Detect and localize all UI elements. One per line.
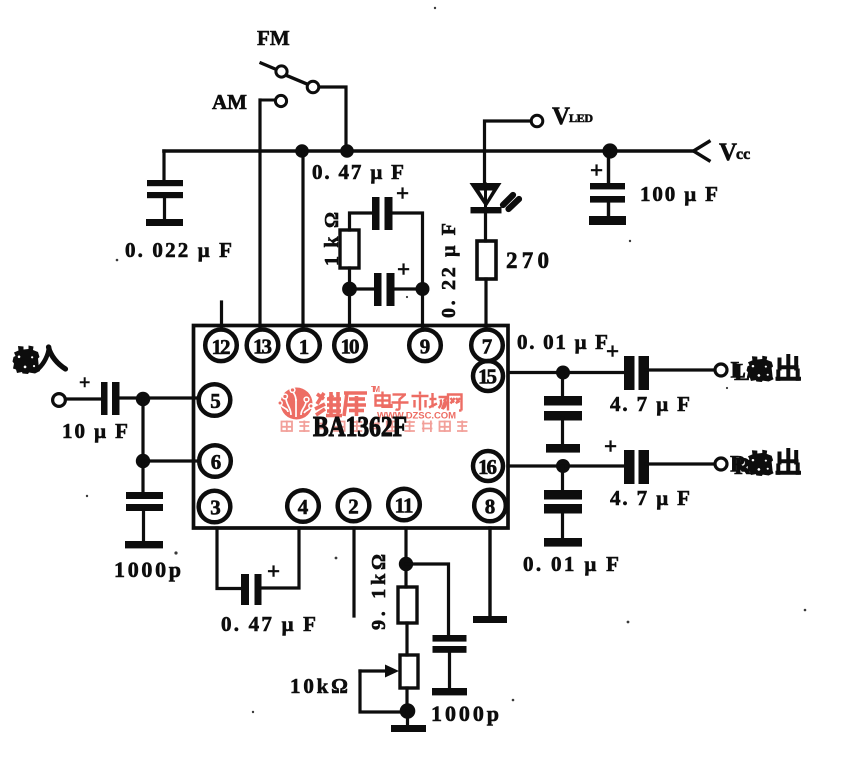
potentiometer RP 10k bbox=[400, 655, 418, 688]
svg-text:1: 1 bbox=[299, 335, 310, 359]
capacitor C 0.22uF upper bbox=[372, 197, 380, 230]
svg-text:0. 47 μ F: 0. 47 μ F bbox=[312, 160, 404, 184]
switch AM contact bbox=[275, 95, 286, 106]
terminal Vcc arrow bbox=[694, 142, 710, 161]
svg-text:100 μ F: 100 μ F bbox=[640, 182, 718, 206]
svg-text:9: 9 bbox=[420, 335, 431, 359]
svg-text:0. 47 μ F: 0. 47 μ F bbox=[221, 612, 316, 636]
svg-text:+: + bbox=[590, 158, 603, 183]
capacitor C 0.22uF lower bbox=[350, 287, 375, 290]
terminal V-LED bbox=[531, 115, 543, 127]
resistor R 1k bbox=[340, 230, 359, 268]
label R output bbox=[734, 454, 752, 480]
svg-text:+: + bbox=[267, 559, 280, 584]
label 0.47uF top bbox=[312, 160, 404, 184]
wire pin4 down bbox=[262, 528, 300, 588]
pin 7 bbox=[471, 330, 503, 362]
wire node to C4.7 bbox=[563, 371, 624, 374]
node pot bottom bbox=[400, 703, 416, 719]
pin 4 bbox=[287, 490, 319, 522]
svg-text:0. 022 μ F: 0. 022 μ F bbox=[125, 238, 232, 262]
svg-text:12: 12 bbox=[212, 335, 231, 359]
svg-text:16: 16 bbox=[478, 455, 497, 479]
node input branch bbox=[136, 392, 150, 406]
pin 9 bbox=[409, 330, 441, 362]
svg-text:11: 11 bbox=[395, 494, 414, 518]
svg-text:R: R bbox=[730, 452, 747, 477]
pot wiper arrow bbox=[360, 669, 390, 672]
svg-text:+: + bbox=[606, 339, 619, 364]
wire node to pin10 bbox=[348, 289, 351, 330]
wire LED to R270 bbox=[484, 212, 487, 241]
svg-text:7: 7 bbox=[482, 335, 493, 359]
wire pin8 ground bbox=[488, 528, 491, 617]
watermark 维库 logo group bbox=[278, 385, 468, 432]
capacitor C 0.47uF bottom bbox=[241, 574, 249, 605]
svg-text:+: + bbox=[604, 434, 617, 459]
label 0.01uF top bbox=[517, 330, 608, 354]
wire pin11 down bbox=[404, 528, 407, 587]
capacitor C 1000p bottom bbox=[433, 635, 467, 642]
wire 1k bottom to node bbox=[348, 268, 351, 289]
watermark text 市 bbox=[412, 392, 429, 411]
svg-text:LED: LED bbox=[569, 111, 593, 125]
svg-text:FM: FM bbox=[257, 26, 290, 50]
capacitor C 4.7uF R bbox=[624, 450, 635, 484]
watermark slogan row bbox=[282, 421, 468, 433]
ground below pot bbox=[406, 711, 409, 726]
resistor R 9.1k bbox=[398, 587, 417, 623]
capacitor C 0.022uF bbox=[162, 151, 165, 181]
watermark text 子 bbox=[392, 395, 409, 410]
svg-text:15: 15 bbox=[478, 365, 497, 389]
svg-text:+: + bbox=[396, 181, 409, 206]
terminal input 输入 bbox=[53, 394, 66, 407]
svg-text:2: 2 bbox=[348, 495, 359, 519]
wire pin16 to node bbox=[508, 464, 563, 467]
wire pin15 to node bbox=[508, 371, 563, 374]
svg-text:5: 5 bbox=[210, 389, 221, 413]
label 10uF bbox=[62, 419, 128, 443]
node right rail bbox=[416, 282, 430, 296]
label 1000p left bbox=[114, 557, 181, 582]
svg-text:TM: TM bbox=[371, 385, 380, 394]
wire pot to node bbox=[405, 688, 408, 711]
wire AM to pin13 bbox=[258, 100, 261, 330]
scan specks bbox=[86, 7, 807, 713]
label 1000p bottom bbox=[431, 701, 499, 726]
svg-text:0. 01 μ F: 0. 01 μ F bbox=[517, 330, 608, 354]
pin 2 bbox=[338, 490, 370, 522]
pin 8 bbox=[474, 490, 506, 522]
capacitor C 0.01uF mid bbox=[561, 373, 564, 397]
pin 3 bbox=[199, 491, 231, 523]
svg-text:cc: cc bbox=[736, 146, 750, 163]
svg-text:270: 270 bbox=[506, 248, 549, 273]
wire switch common to bus bbox=[320, 87, 347, 151]
wire to L output bbox=[647, 368, 715, 371]
pin 1 bbox=[288, 330, 320, 362]
resistor R 270 bbox=[477, 241, 496, 279]
wire pin3 down bbox=[217, 528, 241, 589]
IC U1 BA1362F outline bbox=[194, 326, 509, 529]
watermark text 场 bbox=[429, 393, 447, 409]
svg-text:L: L bbox=[731, 358, 746, 383]
node L channel bbox=[556, 366, 570, 380]
wire R270 to pin7 bbox=[484, 279, 487, 330]
svg-text:13: 13 bbox=[253, 335, 272, 359]
label FM bbox=[257, 26, 290, 50]
watermark text 维 bbox=[315, 392, 342, 416]
label 10k bbox=[290, 674, 348, 698]
label 0.01uF bottom bbox=[523, 552, 619, 576]
label 100uF bbox=[640, 182, 718, 206]
switch common arm bbox=[287, 76, 308, 85]
label L输出 glyphs bbox=[731, 356, 800, 383]
label AM bbox=[212, 90, 247, 114]
pin 13 bbox=[247, 330, 279, 362]
svg-text:1000p: 1000p bbox=[431, 701, 499, 726]
label BA1362F bbox=[313, 411, 407, 443]
label 1k ohm rotated bbox=[321, 212, 343, 266]
node bus 100uF bbox=[602, 143, 617, 158]
label 9.1k rotated bbox=[368, 554, 390, 630]
switch FM contact bbox=[261, 63, 274, 69]
watermark TM bbox=[371, 385, 380, 394]
label R输出 glyphs bbox=[730, 450, 799, 477]
label 4.7uF L bbox=[610, 392, 690, 416]
wire pin12 stub bbox=[220, 302, 223, 330]
wire node down bbox=[141, 399, 144, 461]
watermark text 库 bbox=[344, 393, 367, 416]
terminal L output bbox=[715, 364, 727, 376]
svg-text:4. 7 μ F: 4. 7 μ F bbox=[610, 486, 690, 510]
wire node to C4.7 R bbox=[563, 464, 624, 467]
capacitor C 100uF bbox=[607, 151, 610, 183]
capacitor C 1000p left bbox=[141, 461, 144, 492]
wire V-LED to LED anode bbox=[485, 121, 532, 184]
node pin11 bbox=[399, 557, 413, 571]
wire pin2 stub bbox=[352, 528, 355, 616]
svg-text:10: 10 bbox=[341, 335, 360, 359]
svg-text:BA1362F: BA1362F bbox=[313, 411, 407, 443]
svg-text:3: 3 bbox=[210, 496, 221, 520]
svg-text:9. 1kΩ: 9. 1kΩ bbox=[368, 554, 390, 630]
pin 15 bbox=[473, 361, 503, 391]
label 输入 input glyphs bbox=[13, 346, 66, 375]
label 4.7uF R bbox=[610, 486, 690, 510]
pin 11 bbox=[388, 489, 420, 521]
svg-text:10 μ F: 10 μ F bbox=[62, 419, 128, 443]
ground pin8 bbox=[473, 616, 507, 623]
svg-text:V: V bbox=[552, 103, 570, 130]
wire C10uF to pin5 bbox=[120, 396, 200, 399]
wire Vcc bus horizontal bbox=[164, 149, 692, 153]
watermark text 网 bbox=[448, 395, 462, 411]
svg-text:0. 01 μ F: 0. 01 μ F bbox=[523, 552, 619, 576]
svg-text:4. 7 μ F: 4. 7 μ F bbox=[610, 392, 690, 416]
svg-text:1kΩ: 1kΩ bbox=[321, 212, 343, 266]
capacitor C 0.01uF bottom bbox=[561, 466, 564, 490]
label 0.022uF bbox=[125, 238, 232, 262]
pin 12 bbox=[205, 330, 237, 362]
node pin6 branch bbox=[136, 454, 150, 468]
svg-text:V: V bbox=[719, 139, 737, 166]
wire R to pot bbox=[405, 623, 408, 655]
svg-text:+: + bbox=[397, 257, 410, 282]
node R channel bbox=[556, 459, 570, 473]
watermark logo circle icon bbox=[278, 388, 313, 420]
node bus-switch bbox=[340, 144, 354, 158]
capacitor C 10uF bbox=[101, 382, 108, 415]
wire input to C10uF bbox=[66, 397, 102, 400]
LED D1 bbox=[470, 183, 502, 208]
watermark WWW.DZSC.COM bbox=[377, 411, 456, 422]
watermark text 电 bbox=[376, 392, 392, 407]
svg-text:1000p: 1000p bbox=[114, 557, 181, 582]
svg-text:+: + bbox=[79, 372, 90, 394]
wire node to 1000p bbox=[406, 564, 449, 635]
label L output bbox=[734, 360, 750, 386]
pin 5 bbox=[199, 384, 231, 416]
svg-text:6: 6 bbox=[211, 450, 222, 474]
svg-text:8: 8 bbox=[485, 495, 496, 519]
svg-text:AM: AM bbox=[212, 90, 247, 114]
capacitor C 4.7uF L bbox=[624, 356, 635, 390]
wire 1k top to cap bbox=[350, 213, 373, 230]
wire bus to pin1 bbox=[301, 151, 304, 330]
pin 10 bbox=[334, 330, 366, 362]
label 0.22uF rotated bbox=[438, 223, 460, 318]
svg-text:0. 22 μ F: 0. 22 μ F bbox=[438, 223, 460, 318]
LED light arrows bbox=[503, 195, 513, 205]
pin 16 bbox=[473, 451, 503, 481]
pin 6 bbox=[199, 445, 231, 477]
svg-text:10kΩ: 10kΩ bbox=[290, 674, 348, 698]
wire node to pin6 bbox=[143, 459, 199, 462]
wire cap to right rail bbox=[393, 213, 423, 330]
node pin10 branch bbox=[342, 282, 357, 297]
label 0.47uF bottom bbox=[221, 612, 316, 636]
svg-text:4: 4 bbox=[298, 495, 309, 519]
node bus-pin1 bbox=[295, 144, 309, 158]
wire to R output bbox=[647, 462, 715, 465]
terminal R output bbox=[715, 458, 727, 470]
